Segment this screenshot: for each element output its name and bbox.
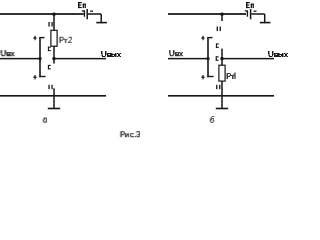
value label RT1 (Rt part) — [226, 73, 235, 79]
battery GB1 short plate — [83, 11, 85, 17]
ground bar (circuit b) — [216, 108, 228, 110]
sub-figure label b — [210, 116, 215, 123]
node output junction (circuit a) — [52, 57, 55, 60]
node rail-thermistor junction (circuit a) — [52, 13, 55, 16]
wire rail to transistor source (circuit b) — [221, 13, 223, 21]
battery GB1 minus dash right — [90, 10, 93, 12]
transistor VT2 gate bar (circuit b) — [207, 37, 209, 77]
wire battery to ground (circuit a) — [88, 13, 101, 15]
wire input (circuit b) — [168, 58, 209, 60]
gate mark z bottom (circuit b) — [201, 75, 204, 79]
wire top supply rail (circuit a) — [0, 13, 84, 15]
battery GB2 minus dash right — [254, 10, 257, 12]
pin label i upper (circuit a) — [48, 22, 52, 27]
ground bar (circuit a) — [48, 108, 60, 110]
pin label c drain (circuit b) — [216, 43, 219, 48]
battery GB1 minus dash left — [82, 10, 85, 12]
transistor VT1 source tick (circuit a) — [39, 76, 45, 78]
wire top supply rail (circuit b) — [168, 13, 246, 15]
wire bottom rail (circuit a) — [0, 95, 106, 97]
wire down to ground (circuit a) — [100, 14, 102, 22]
label Ep (circuit a) — [78, 2, 86, 8]
transistor VT2 drain tick (circuit b) — [207, 37, 212, 39]
ground bar battery (circuit a) — [96, 22, 107, 24]
node gate-input junction (circuit b) — [206, 57, 209, 60]
gate mark z top (circuit b) — [201, 36, 204, 40]
gate mark z top (circuit a) — [33, 36, 36, 40]
label Uvyh (circuit a) — [101, 51, 121, 57]
sub-figure label a — [43, 118, 47, 123]
wire output (circuit b) — [222, 58, 274, 60]
transistor VT1 gate bar (circuit a) — [39, 37, 41, 77]
label Uvyh (circuit b) — [268, 51, 288, 57]
node gate-input junction (circuit a) — [38, 57, 41, 60]
pin label i source (circuit a) — [48, 85, 52, 89]
value label RT1 digit 1 — [233, 73, 235, 79]
caption Ris.3 — [120, 131, 140, 137]
pin label c below RT2 (circuit a) — [48, 47, 51, 52]
battery GB2 short plate — [246, 11, 248, 17]
ground stem (circuit b) — [221, 96, 223, 108]
wire down to ground (circuit b) — [264, 14, 266, 22]
battery GB1 long plate — [86, 9, 88, 19]
battery GB2 long plate — [250, 9, 252, 19]
value label RT2 — [59, 37, 72, 43]
wire rail to thermistor RT2 — [53, 13, 55, 31]
pin label c drain (circuit a) — [48, 65, 51, 70]
thermistor RT1 body — [219, 65, 225, 81]
node output junction (circuit b) — [220, 57, 223, 60]
wire battery to ground (circuit b) — [251, 13, 264, 15]
transistor VT1 drain tick (circuit a) — [39, 37, 44, 39]
pin label c above RT1 (circuit b) — [216, 56, 219, 61]
node rail junction (circuit b) — [220, 13, 223, 16]
wire bottom rail (circuit b) — [168, 95, 274, 97]
ground stem (circuit a) — [53, 96, 55, 108]
wire source stub (circuit a) — [53, 88, 55, 96]
wire output (circuit a) — [54, 58, 106, 60]
label Ep (circuit b) — [246, 2, 254, 8]
wire thermistor to output node — [53, 46, 55, 59]
wire drain stub (circuit a) — [53, 59, 55, 64]
transistor VT2 source tick (circuit b) — [207, 76, 213, 78]
wire drain to output node (circuit b) — [221, 49, 223, 66]
battery GB2 minus dash left — [245, 10, 248, 12]
thermistor RT2 body — [51, 30, 57, 46]
gate mark z bottom (circuit a) — [33, 75, 36, 79]
pin label i source (circuit b) — [217, 27, 221, 32]
label Uvh (circuit b) — [169, 50, 183, 56]
wire input (circuit a) — [0, 58, 41, 60]
ground bar battery (circuit b) — [260, 22, 271, 24]
pin label i lower (circuit b) — [216, 85, 220, 89]
wire RT1 to bottom rail — [221, 81, 223, 96]
label Uvh (circuit a) — [1, 50, 15, 56]
